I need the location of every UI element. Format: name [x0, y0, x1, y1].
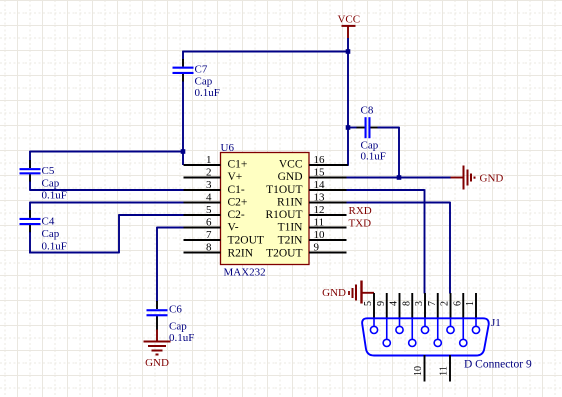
svg-text:13: 13: [314, 192, 326, 204]
svg-text:C6: C6: [169, 304, 182, 316]
capacitor C6: [147, 301, 168, 330]
svg-text:4: 4: [206, 192, 212, 204]
svg-text:2: 2: [440, 301, 451, 306]
svg-text:V+: V+: [228, 171, 243, 183]
svg-text:GND: GND: [145, 357, 169, 369]
svg-text:R2IN: R2IN: [228, 248, 254, 260]
svg-text:U6: U6: [221, 142, 235, 154]
svg-text:14: 14: [314, 179, 326, 191]
net label TXD: [349, 218, 372, 230]
junction C5/C7 node: [181, 149, 186, 154]
svg-text:D Connector 9: D Connector 9: [464, 359, 532, 371]
chip right pins 16-9: [309, 165, 348, 253]
pin numbers left: [206, 154, 212, 254]
svg-text:Cap: Cap: [169, 321, 187, 333]
label C8 value: [361, 105, 386, 163]
svg-text:GND: GND: [480, 173, 504, 185]
wire C7 vertical down to pin 1: [182, 51, 184, 165]
svg-text:0.1uF: 0.1uF: [195, 87, 220, 99]
svg-text:5: 5: [206, 204, 212, 216]
svg-text:C4: C4: [42, 216, 55, 228]
wire C5 bottom to pin 3: [30, 189, 185, 191]
svg-text:15: 15: [314, 167, 326, 179]
svg-text:T1OUT: T1OUT: [266, 184, 302, 196]
connector J1 DB9 pin lines top: [374, 293, 476, 319]
svg-text:11: 11: [439, 366, 450, 376]
pin names left: [228, 159, 264, 260]
svg-text:GND: GND: [322, 287, 346, 299]
svg-text:1: 1: [206, 154, 212, 166]
svg-text:RXD: RXD: [349, 205, 372, 217]
svg-text:V-: V-: [228, 222, 239, 234]
svg-text:0.1uF: 0.1uF: [42, 241, 67, 253]
connector J1 body: [362, 318, 489, 355]
svg-text:T1IN: T1IN: [278, 222, 304, 234]
wire C4 bottom jog up to pin 5: [29, 215, 184, 253]
DB9 stubs and circles bottom row: [383, 319, 467, 347]
wire pin 14 to DB9 pin 3: [347, 189, 425, 293]
svg-text:R1IN: R1IN: [277, 197, 303, 209]
svg-text:Cap: Cap: [195, 76, 213, 88]
svg-text:16: 16: [314, 154, 326, 166]
pin names right: [265, 159, 303, 260]
pin numbers right: [314, 154, 326, 254]
svg-text:3: 3: [414, 301, 425, 306]
svg-text:8: 8: [401, 301, 412, 306]
svg-text:0.1uF: 0.1uF: [169, 332, 194, 344]
wire pin 15 to GND: [347, 177, 452, 179]
svg-text:Cap: Cap: [42, 178, 60, 190]
svg-text:6: 6: [206, 217, 212, 229]
ground GND at DB9 pin 5: [349, 281, 374, 304]
svg-text:8: 8: [206, 242, 212, 254]
wire C4 top to pin 4: [30, 202, 185, 204]
DB9 pin labels 10 11 rotated: [413, 366, 450, 376]
wire pin 6 to C6: [157, 227, 185, 302]
junction VCC / C8: [346, 125, 351, 130]
svg-text:7: 7: [206, 229, 212, 241]
op-amp U6 chip body MAX232: [221, 142, 310, 279]
svg-text:C1+: C1+: [228, 159, 248, 171]
power VCC symbol: [337, 14, 360, 39]
svg-text:5: 5: [363, 301, 374, 306]
svg-text:6: 6: [452, 301, 463, 306]
svg-text:9: 9: [314, 242, 320, 254]
DB9 stubs and circles top row: [370, 319, 479, 334]
svg-text:T2OUT: T2OUT: [228, 234, 264, 246]
svg-text:Cap: Cap: [42, 228, 60, 240]
label D Connector 9: [464, 359, 532, 371]
net label RXD: [349, 205, 372, 217]
DB9 bottom pins 10 11: [425, 355, 451, 382]
junction VCC / top wire: [346, 49, 351, 54]
svg-text:10: 10: [314, 229, 326, 241]
label C7 value: [195, 64, 220, 100]
svg-text:C7: C7: [195, 64, 208, 76]
capacitor C7: [173, 59, 194, 82]
svg-text:12: 12: [314, 204, 325, 216]
wire VCC vertical to pin 16: [347, 38, 349, 166]
capacitor C8: [348, 117, 378, 138]
svg-text:3: 3: [206, 179, 212, 191]
chip left pins 1-8: [184, 165, 221, 253]
ground GND right of pin 15: [451, 166, 475, 190]
svg-text:4: 4: [389, 301, 400, 306]
svg-text:VCC: VCC: [279, 159, 303, 171]
capacitor C4: [20, 202, 41, 254]
wire VCC top horizontal to C7: [183, 51, 348, 53]
svg-text:0.1uF: 0.1uF: [42, 190, 67, 202]
svg-text:0.1uF: 0.1uF: [361, 151, 386, 163]
svg-text:MAX232: MAX232: [224, 267, 266, 279]
svg-text:GND: GND: [278, 171, 303, 183]
svg-text:1: 1: [465, 301, 476, 306]
svg-text:C8: C8: [361, 105, 374, 117]
svg-text:2: 2: [206, 167, 212, 179]
label C4 value: [42, 216, 67, 253]
label J1: [491, 317, 501, 329]
label C6 value: [169, 304, 194, 345]
ground GND below C6: [144, 330, 171, 355]
svg-text:9: 9: [376, 301, 387, 306]
DB9 pin numbers rotated: [363, 301, 476, 306]
label C5 value: [42, 165, 67, 202]
svg-text:C2+: C2+: [228, 197, 248, 209]
svg-text:C1-: C1-: [228, 184, 245, 196]
svg-text:R1OUT: R1OUT: [265, 209, 302, 221]
wire pin 13 to DB9 pin 2: [347, 202, 451, 294]
svg-text:C5: C5: [42, 165, 55, 177]
svg-text:7: 7: [427, 301, 438, 306]
svg-text:TXD: TXD: [349, 218, 372, 230]
svg-text:10: 10: [413, 366, 424, 376]
svg-text:T2IN: T2IN: [278, 234, 304, 246]
svg-text:11: 11: [314, 217, 325, 229]
svg-text:T2OUT: T2OUT: [266, 248, 302, 260]
wire C5 top horizontal: [30, 151, 183, 153]
wire C8 right down to GND wire: [378, 127, 400, 178]
capacitor C5: [20, 151, 41, 191]
junction C8 / GND wire: [397, 175, 402, 180]
svg-text:C2-: C2-: [228, 209, 245, 221]
svg-text:VCC: VCC: [337, 14, 360, 26]
svg-text:J1: J1: [491, 317, 501, 329]
